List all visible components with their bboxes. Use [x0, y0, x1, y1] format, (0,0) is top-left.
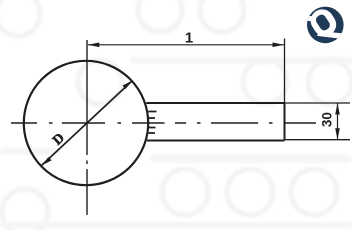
diagonal diameter line D [42, 81, 133, 166]
30 top arrow [335, 103, 340, 115]
shaft top edge [146, 102, 284, 104]
horizontal centerline (dash-dot) [11, 122, 316, 124]
white outer of the e [306, 5, 340, 41]
dimension line l [88, 44, 284, 46]
entering bar [307, 16, 321, 23]
exit bar [317, 31, 344, 39]
circle (flange outline D) [24, 61, 148, 185]
D bottom-left arrow [42, 157, 52, 166]
arrowheads [42, 43, 340, 166]
D top-right arrow [122, 81, 132, 90]
vertical centerline / extension line [86, 40, 88, 215]
watermark background [0, 0, 1, 1]
navy eye [314, 13, 331, 32]
l right arrow [273, 43, 285, 48]
svg-text:30: 30 [320, 112, 335, 127]
30 bottom arrow [335, 128, 340, 140]
hatch ticks at shaft/circle junction [148, 112, 156, 134]
svg-text:D: D [50, 131, 68, 149]
logo [306, 5, 344, 43]
30 dim: top extension [285, 102, 351, 104]
30 dim: bottom extension [285, 139, 351, 141]
svg-text:1: 1 [185, 30, 193, 47]
l left arrow [88, 43, 100, 48]
30 dimension line [337, 103, 339, 140]
extension line right (for l) [284, 39, 286, 104]
shaft right edge [284, 103, 286, 141]
shaft bottom edge [147, 140, 285, 142]
